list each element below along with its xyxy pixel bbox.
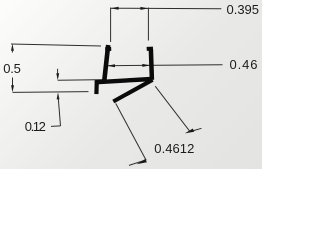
dimension 0.395 dimension line (111, 7, 222, 10)
dimension 0.5 bottom arrow (11, 85, 14, 92)
dimension 0.5 bottom extension line (13, 91, 89, 94)
dimension 0.5 top stem (11, 47, 13, 53)
profile left end stub (94, 81, 99, 94)
dimension 0.46 arrow left (107, 64, 115, 67)
dimension 0.4612 arrow upper-right (185, 129, 194, 134)
profile right prong (151, 50, 152, 80)
dimension 0.12 lower stem (58, 96, 60, 126)
dimension 0.5 bottom stem (12, 78, 14, 89)
profile diagonal leg (113, 80, 152, 102)
dimension 0.12 lower arrow (57, 92, 60, 99)
dimension 0.4612 dimension stub upper-right (190, 128, 202, 131)
dimension 0.5 top arrow (11, 44, 14, 51)
dimension 0.395 extension line left (110, 8, 112, 43)
dimension 0.46 dimension line (107, 64, 223, 67)
dimension 0.5 top extension line (11, 44, 101, 46)
svg-text:0.12: 0.12 (25, 119, 46, 134)
dimension 0.4612 extension line lower-left (116, 103, 146, 160)
dimension 0.12 upper extension line (58, 79, 106, 82)
dimension 0.12 leader tick (51, 125, 61, 128)
dimension 0.12 upper stem (57, 69, 59, 75)
dimension 0.395 extension line right (147, 8, 149, 41)
svg-text:0.4612: 0.4612 (154, 141, 194, 156)
dimension 0.4612 arrow lower-left (137, 159, 147, 164)
svg-text:0.395: 0.395 (227, 2, 260, 17)
profile left prong (104, 45, 108, 81)
dimension 0.4612 dimension stub lower-left (129, 160, 147, 166)
dimension 0.395 arrow right (140, 7, 148, 10)
profile bottom bar (95, 79, 152, 82)
profile left prong top cap (105, 47, 111, 51)
profile right prong top hook (147, 47, 153, 51)
dimension 0.4612 extension line upper-right (155, 86, 190, 131)
svg-text:0.46: 0.46 (230, 57, 258, 72)
svg-text:0.5: 0.5 (3, 61, 21, 76)
dimension 0.395 arrow left (111, 7, 119, 10)
dimension 0.46 arrow right (142, 64, 150, 67)
dimension 0.12 upper arrow (56, 73, 59, 80)
